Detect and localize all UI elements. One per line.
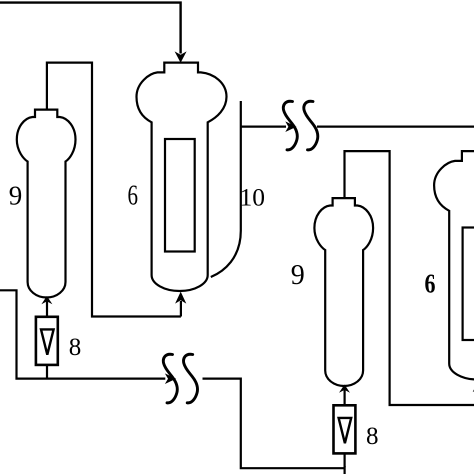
arrowhead down into vessel 6 top: [175, 51, 187, 62]
svg-text:9: 9: [9, 181, 22, 211]
wire: left inlet pipe: [0, 290, 165, 378]
wire: top transfer line to right train: [241, 125, 286, 127]
arrowhead right on top transfer line: [285, 121, 296, 132]
wire: bottom transfer line after break: [203, 379, 345, 469]
wire: top feed line: [0, 3, 181, 54]
svg-text:6: 6: [128, 181, 139, 212]
arrowhead right on bottom transfer line: [165, 373, 176, 384]
svg-text:10: 10: [240, 182, 266, 211]
break symbol on top transfer line: [283, 101, 297, 150]
pipe 10 riser from vessel 6: [211, 101, 241, 277]
svg-text:9: 9: [291, 260, 305, 291]
wire: top transfer line after break: [317, 125, 474, 127]
svg-text:8: 8: [69, 334, 82, 361]
wire: stem below rotameter 2 to edge: [344, 466, 346, 474]
train 1 unit (vessels 9 and 6, rotameter 8): [17, 63, 227, 379]
svg-text:6: 6: [425, 269, 436, 299]
svg-text:8: 8: [366, 423, 379, 450]
train 2 unit (vessels 9 and 6, rotameter 8): [314, 151, 474, 467]
break symbol on bottom transfer line: [163, 354, 177, 403]
